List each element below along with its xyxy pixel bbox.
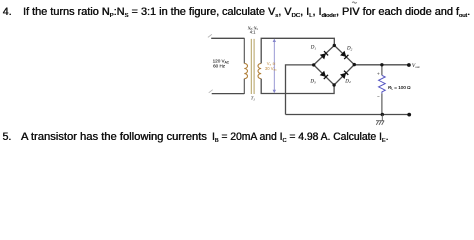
- junction dot ground rail at RL: [381, 113, 384, 116]
- label 120VAC 60Hz: [213, 59, 230, 69]
- break tick bottom-left: [209, 90, 213, 93]
- junction dot bridge left: [312, 63, 315, 66]
- svg-text:D3: D3: [309, 80, 316, 85]
- label Vs = 30 Vac: [265, 61, 277, 72]
- terminal dot Vout: [407, 63, 411, 67]
- svg-text:4:1: 4:1: [250, 29, 256, 34]
- junction dot bridge right: [353, 63, 356, 66]
- wire: secondary top lead and top rail to bridge: [261, 38, 334, 63]
- svg-text:D4: D4: [344, 79, 351, 84]
- chassis ground symbol: [376, 115, 384, 125]
- problem 4 text first half: [23, 7, 219, 18]
- problem 5 number: [3, 132, 12, 143]
- problem 4 number: [3, 7, 12, 18]
- svg-text:RL = 100 Ω: RL = 100 Ω: [388, 85, 411, 91]
- resistor RL zigzag: [379, 75, 386, 93]
- problem 4 text second half: [222, 7, 470, 18]
- svg-text:60 Hz: 60 Hz: [213, 64, 226, 69]
- wire: bridge left output to ground rail: [286, 65, 314, 115]
- wire: ground rail: [286, 114, 410, 116]
- plus polarity mark: [377, 73, 379, 75]
- junction dot bridge bottom: [332, 83, 335, 86]
- svg-text:Vout: Vout: [412, 63, 420, 69]
- stray grey mark top center: [352, 2, 357, 3]
- wire: primary coil top lead: [243, 38, 245, 64]
- break tick top-left: [208, 34, 212, 37]
- wire: primary top stub: [211, 37, 244, 39]
- diode D2: [340, 51, 348, 59]
- terminal dot ground rail end: [407, 113, 411, 117]
- problem 5 text first half: [21, 132, 207, 143]
- wire: primary coil bottom lead: [243, 79, 245, 94]
- svg-text:30 Vac: 30 Vac: [265, 66, 277, 72]
- diode D1: [320, 51, 328, 59]
- junction dot bridge top: [333, 44, 336, 47]
- wire: secondary bottom lead and bottom rail to bridge: [261, 79, 334, 94]
- Vs measurement arrow: [273, 39, 276, 94]
- diode D3: [320, 71, 328, 79]
- minus polarity mark: [377, 95, 379, 97]
- wire: RL bottom branch: [381, 94, 383, 115]
- diode D4: [340, 71, 348, 79]
- svg-text:D1: D1: [310, 46, 317, 51]
- primary winding of transformer T1: [244, 63, 247, 78]
- transformer core: [251, 39, 254, 94]
- secondary winding of transformer T1: [258, 63, 261, 78]
- wire: bridge right output rail: [354, 64, 409, 66]
- bridge diamond wires: [314, 45, 355, 85]
- svg-text:D2: D2: [346, 47, 353, 52]
- wire: RL top branch: [381, 65, 383, 76]
- problem 5 text second half: [212, 132, 389, 143]
- junction dot RL top: [380, 63, 383, 66]
- wire: primary bottom stub: [212, 93, 245, 95]
- svg-text:T1: T1: [251, 96, 256, 102]
